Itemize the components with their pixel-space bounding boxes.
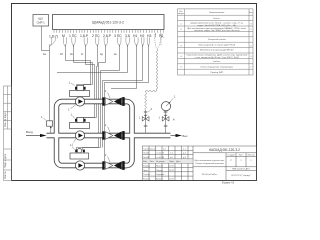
motor box pump 2	[70, 123, 90, 129]
pressure gauge MN1	[161, 102, 170, 111]
svg-text:1 ПС: 1 ПС	[69, 34, 77, 38]
svg-text:12.07: 12.07	[169, 166, 175, 168]
left revision grid columns	[148, 146, 150, 181]
right part	[193, 152, 257, 154]
left margin tiny rotated captions	[4, 112, 7, 179]
motor box pump 3	[70, 153, 89, 159]
wire harness: drops and jogs into bundle	[57, 45, 149, 164]
riser 2 flanges	[164, 124, 168, 126]
pipe: left header with row1 and row3 branches	[47, 102, 171, 166]
svg-text:Петров: Петров	[156, 170, 163, 172]
svg-text:Кол.: Кол.	[249, 12, 254, 14]
svg-text:12.07: 12.07	[169, 170, 175, 172]
svg-text:Гильза под датчик температуры: Гильза под датчик температуры	[201, 66, 234, 68]
valve V2 on riser 2	[162, 117, 169, 121]
svg-text:зиция: зиция	[178, 13, 185, 15]
svg-text:Сидоров: Сидоров	[156, 174, 164, 176]
svg-text:1,8-7): 1,8-7)	[49, 34, 58, 38]
svg-text:РФ 00 мП мРес: РФ 00 мП мРес	[202, 173, 219, 176]
svg-text:Прибор КИП: Прибор КИП	[210, 72, 223, 74]
svg-text:Листов: Листов	[247, 155, 255, 157]
svg-text:Формат А3: Формат А3	[222, 181, 235, 184]
motor cap pump 1	[77, 86, 84, 91]
svg-text:Т: Т	[154, 34, 156, 38]
svg-text:Волков: Волков	[156, 179, 163, 181]
wire from cabinet ЩУ down	[42, 26, 50, 51]
inlet single line and arrow	[26, 135, 40, 137]
label 1 motor M2	[73, 116, 75, 119]
svg-text:Манометр показывающий МП-4У: Манометр показывающий МП-4У	[200, 49, 234, 52]
svg-text:панелью, подкл. 3ф. 380В, для: панелью, подкл. 3ф. 380В, для трех насос…	[194, 29, 240, 32]
label 1 sensor	[44, 118, 47, 120]
svg-text:М: М	[62, 34, 65, 38]
svg-text:ООО ПСЦ "Сириус": ООО ПСЦ "Сириус"	[231, 175, 251, 177]
dashed impulse line pair	[156, 33, 162, 46]
svg-text:№ докум.: № докум.	[156, 160, 165, 163]
svg-text:№142: №142	[144, 152, 150, 155]
inlet pressure sensor	[47, 121, 53, 126]
table body tiny text	[180, 18, 252, 74]
outlet single line and arrow	[171, 135, 176, 137]
svg-text:Запорный клапан: Запорный клапан	[208, 38, 227, 41]
pump P3	[75, 161, 84, 170]
svg-text:Н.контр.: Н.контр.	[143, 179, 151, 181]
svg-text:СМР-1: СМР-1	[37, 21, 46, 25]
label 1 motor M3	[72, 147, 75, 150]
svg-text:Иванов: Иванов	[156, 166, 163, 168]
svg-text:Наименование: Наименование	[209, 12, 225, 14]
flange+reducer+check valve row 1	[102, 89, 124, 106]
label 1 pump P2	[74, 139, 76, 143]
lower capillary single line to valve	[145, 110, 147, 114]
pump P1	[75, 97, 84, 106]
svg-text:от 12.07: от 12.07	[157, 153, 165, 155]
svg-text:Инв.№: Инв.№	[4, 171, 7, 179]
svg-text:ЩУ: ЩУ	[38, 17, 43, 21]
revision row gray strip	[143, 159, 193, 163]
flange+reducer+check valve row 3	[102, 153, 124, 170]
cable number labels	[43, 53, 117, 56]
svg-text:ЩМАиД 051-120-3-2: ЩМАиД 051-120-3-2	[92, 20, 124, 24]
svg-text:Н1: Н1	[133, 34, 137, 38]
svg-text:Подп.: Подп.	[169, 161, 175, 163]
svg-text:РД: РД	[159, 34, 164, 38]
svg-text:Схема соединений внешних: Схема соединений внешних	[195, 162, 225, 165]
svg-text:Кран шаровой со спускн. Ду15 Р: Кран шаровой со спускн. Ду15 Ру16	[199, 43, 236, 46]
label 1 pump P1	[71, 105, 76, 109]
svg-text:Лист: Лист	[239, 155, 244, 157]
svg-text:КАСКАД 051-120-3-2: КАСКАД 051-120-3-2	[209, 148, 240, 152]
svg-text:Изм: Изм	[143, 161, 147, 163]
svg-text:Пров.: Пров.	[143, 170, 149, 172]
svg-text:Т.контр.: Т.контр.	[143, 174, 151, 176]
svg-text:от 03.08: от 03.08	[157, 157, 165, 159]
riser 1 flanges	[144, 124, 148, 126]
svg-text:Разраб.: Разраб.	[143, 166, 151, 168]
outlet flow arrow	[176, 134, 183, 137]
svg-text:А: А	[173, 118, 175, 122]
inlet flow arrow	[40, 134, 47, 137]
motor cap pump 2	[77, 118, 84, 123]
motor cap pump 3	[77, 149, 81, 153]
svg-text:4г: 4г	[81, 53, 83, 56]
terminal number labels row	[49, 34, 164, 38]
svg-text:Инв. № подл.: Инв. № подл.	[4, 112, 7, 127]
pump P2	[75, 131, 84, 140]
svg-text:подкл. 1ф+N+PE 220В, 50Гц, N=.: подкл. 1ф+N+PE 220В, 50Гц, N=... кВт	[197, 24, 236, 27]
svg-text:Н3: Н3	[147, 34, 151, 38]
riser 1	[145, 114, 147, 134]
svg-text:Н2: Н2	[140, 34, 144, 38]
motor box pump 1	[70, 91, 90, 97]
svg-text:НКБ 1523.07-АТХ: НКБ 1523.07-АТХ	[232, 168, 250, 171]
svg-text:Вход: Вход	[26, 130, 33, 134]
svg-text:овано: овано	[150, 148, 156, 150]
white patch at header crosses	[55, 134, 59, 138]
wire merge funnels	[50, 37, 160, 48]
svg-text:Подп. и дата: Подп. и дата	[4, 153, 7, 168]
svg-text:№148: №148	[144, 156, 150, 159]
left margin attribute table	[4, 86, 12, 181]
svg-text:Щит автоматики и диспетчер.: Щит автоматики и диспетчер.	[194, 160, 224, 162]
table header text	[178, 11, 254, 15]
cabinet box ЩУ	[33, 15, 49, 27]
svg-text:Вых.: Вых.	[183, 134, 189, 138]
svg-text:кабель: кабель	[213, 61, 221, 63]
svg-text:Стадия: Стадия	[227, 155, 235, 157]
svg-text:Лист: Лист	[150, 161, 154, 163]
svg-text:с лат. корпусом Ду 32 мм, Т до: с лат. корпусом Ду 32 мм, Т до 100°С, Ру…	[195, 57, 240, 59]
svg-text:12.07: 12.07	[169, 179, 175, 181]
riser 2	[165, 111, 167, 134]
controller box ЩМАиД	[53, 15, 165, 30]
svg-text:Насос: Насос	[214, 18, 221, 20]
terminal ticks under controller	[54, 30, 163, 33]
zigzag capillary line	[145, 49, 158, 111]
drawing frame	[12, 4, 257, 181]
valve V1 on riser 1	[142, 117, 149, 121]
wire to inlet pressure sensor	[49, 45, 51, 121]
label 1 motor M1	[71, 83, 75, 86]
left grid rows	[143, 149, 194, 151]
flange+reducer+check valve row 2	[102, 123, 124, 140]
